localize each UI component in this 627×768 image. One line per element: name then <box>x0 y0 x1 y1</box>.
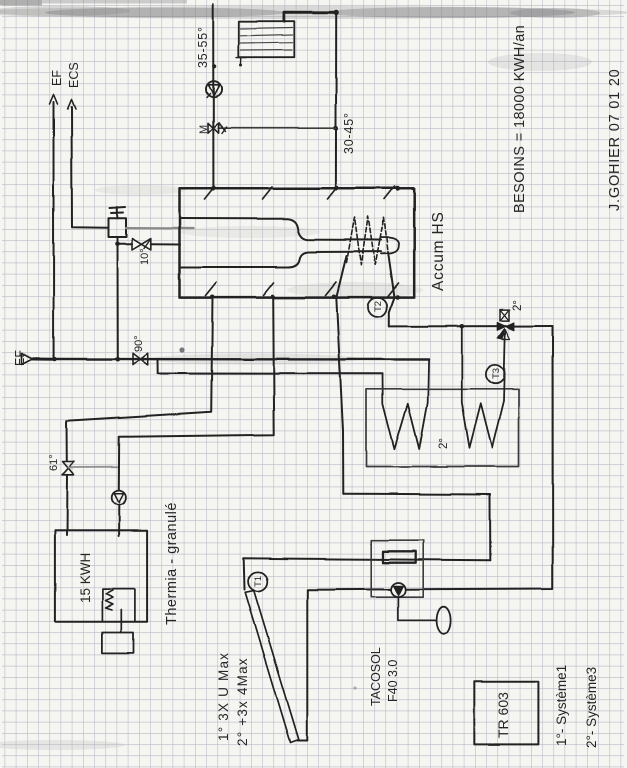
wire valve to pump line (pencil) <box>68 466 119 468</box>
svg-text:BESOINS = 18000 KWH/an: BESOINS = 18000 KWH/an <box>512 25 528 213</box>
svg-text:Thermia - granulé: Thermia - granulé <box>164 502 180 625</box>
boiler ash box below <box>102 633 133 653</box>
pump P radiator circle <box>206 82 222 98</box>
coil W2 legs and zigzag <box>462 326 506 447</box>
svg-text:2° +3x 4Max: 2° +3x 4Max <box>235 657 250 746</box>
valve 61deg hourglass <box>63 462 75 475</box>
svg-text:35-55°: 35-55° <box>196 26 210 68</box>
wire pump down to boiler <box>118 505 120 536</box>
wire collector right pipe up and to pump <box>298 589 392 740</box>
wire mixer to tank (pencil) <box>126 227 193 230</box>
wire EF tee branch down <box>157 359 159 373</box>
box exchangers enclosure <box>367 389 519 467</box>
wire valve down to boiler <box>66 475 69 536</box>
svg-text:Accum HS: Accum HS <box>430 211 447 291</box>
svg-text:15 KWH: 15 KWH <box>78 553 93 603</box>
pump P boiler rotor <box>114 494 123 503</box>
wire EF cold supply riser <box>53 102 55 360</box>
svg-text:TACOSOL: TACOSOL <box>369 647 383 706</box>
svg-text:T1: T1 <box>253 576 264 587</box>
svg-text:ECS: ECS <box>67 62 81 88</box>
svg-text:EF: EF <box>50 70 64 86</box>
tank immersion tube lower line <box>180 252 381 267</box>
svg-text:J.GOHIER 07 01 20: J.GOHIER 07 01 20 <box>607 68 623 211</box>
node junction W2 left feed <box>460 324 465 329</box>
tank immersion tube bulb end <box>381 237 399 253</box>
wire 35-55 riser <box>212 4 214 188</box>
valve TH handle <box>110 207 126 218</box>
node junction mixer bottom <box>115 242 120 247</box>
tank Accum HS body <box>180 188 415 297</box>
wire 30-45 riser <box>335 13 337 188</box>
flame symbol <box>106 591 114 611</box>
node EF inlet arrow <box>22 354 33 365</box>
valve TH thermostatic mixer body <box>109 218 127 237</box>
flowmeter in pump station <box>383 551 416 562</box>
svg-text:M: M <box>198 125 210 134</box>
node dot under 35-55 label <box>212 64 216 68</box>
expansion vessel ellipse <box>437 607 451 635</box>
boiler inner chamber <box>102 589 134 622</box>
svg-text:T2: T2 <box>373 301 384 312</box>
pump P boiler circle <box>112 491 126 505</box>
valve 2deg mixing star valve <box>497 323 514 331</box>
node junction 30-45 <box>334 126 339 131</box>
svg-text:1°- Système1: 1°- Système1 <box>554 665 569 746</box>
svg-text:10°: 10° <box>139 248 151 265</box>
svg-text:2°- Système3: 2°- Système3 <box>584 667 599 748</box>
solar collector panel <box>245 591 299 743</box>
svg-text:90°: 90° <box>133 335 145 352</box>
svg-text:61°: 61° <box>48 454 60 471</box>
radiator fins sketch <box>241 28 293 51</box>
wire solar flow upper horizontal to collector <box>244 558 491 589</box>
wire mixer bottom stub <box>117 237 119 244</box>
wire tank bottom to 2deg valve line <box>388 252 395 326</box>
svg-text:1° 3X U Max: 1° 3X U Max <box>216 652 231 741</box>
node ECS arrowhead <box>68 100 76 110</box>
tank bottom junction dots <box>210 295 215 300</box>
wire EF main horizontal line <box>55 358 429 361</box>
tank top connection ticks <box>205 187 395 200</box>
sensor T3 circle <box>486 364 505 383</box>
svg-text:TR 603: TR 603 <box>495 692 511 738</box>
box TR603 controller <box>474 682 538 745</box>
wire flame stub down <box>120 610 122 633</box>
svg-text:2°: 2° <box>512 300 524 311</box>
wire EF inlet scribble <box>33 358 55 361</box>
node junction EF riser <box>52 357 56 361</box>
wire lower feed to exchanger W1 left <box>158 373 382 375</box>
sensor T1 circle <box>248 572 267 591</box>
pump station TACOSOL box <box>371 540 423 597</box>
svg-text:T3: T3 <box>491 368 502 379</box>
wire pump bottom stub to vessel <box>398 597 436 621</box>
wire boiler flow: tank to boiler valve <box>67 297 213 461</box>
wire junction to check valve <box>118 243 133 245</box>
tank bottom connection ticks <box>206 283 399 297</box>
wire right drop from valve line to solar pump <box>406 326 553 589</box>
node EF arrowhead <box>50 94 58 104</box>
wire mixer branch down to EF line <box>117 244 119 359</box>
radiator body <box>239 21 294 57</box>
tank solar coil zigzag <box>347 217 389 266</box>
pump P solar rotor filled <box>394 586 404 596</box>
wire check valve to tank left wall <box>151 243 180 245</box>
valve 90deg on EF line <box>133 353 148 365</box>
node junction mixer branch <box>116 357 121 362</box>
svg-text:30-45°: 30-45° <box>342 112 356 154</box>
node junction radiator line <box>334 10 339 15</box>
wire boiler return: tank to pump <box>119 297 274 491</box>
wire radiator to 30-45 riser <box>284 13 336 22</box>
wire ECS hot outlet riser <box>72 107 109 227</box>
svg-text:2°: 2° <box>438 438 450 449</box>
wire solar flow horizontal to right <box>343 494 490 561</box>
pump P solar circle <box>391 583 406 598</box>
wire 2deg valve horizontal line <box>389 325 552 327</box>
radiator drain ticks <box>237 58 247 64</box>
sensor T2 circle <box>368 298 387 317</box>
valve M motorised <box>208 123 219 133</box>
svg-text:F40 3.0: F40 3.0 <box>386 660 400 702</box>
pump P radiator rotor <box>208 85 219 95</box>
svg-text:EF: EF <box>13 350 27 366</box>
wire M-valve to 30-45 riser <box>219 127 337 129</box>
coil W1 left leg and zigzag <box>383 360 429 450</box>
valve check valve on tank-mixer line <box>132 239 151 250</box>
boiler Thermia box <box>55 531 147 622</box>
wire solar flow: tank down the middle <box>336 256 346 494</box>
tank top junction dots <box>211 186 215 190</box>
tank immersion tube upper line <box>180 219 381 241</box>
